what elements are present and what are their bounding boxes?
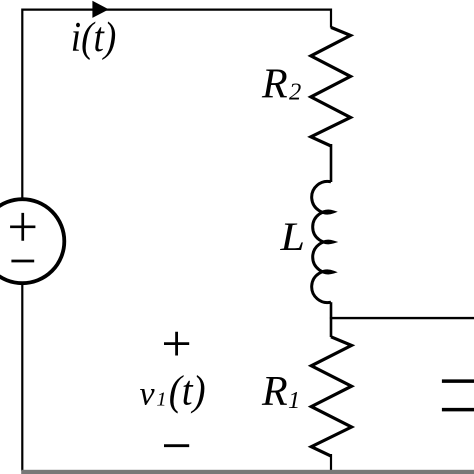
- resistor R1: [311, 337, 351, 456]
- wire: source bottom to bottom wire: [21, 284, 23, 472]
- capacitor plates (cut off at right edge): [442, 381, 474, 410]
- svg-text:i(t): i(t): [71, 14, 117, 61]
- svg-text:1: 1: [288, 387, 300, 414]
- svg-text:(t): (t): [169, 368, 206, 415]
- svg-text:1: 1: [156, 388, 166, 410]
- label minus for v1: [164, 444, 189, 447]
- svg-text:R: R: [261, 62, 288, 108]
- svg-text:R: R: [261, 369, 288, 415]
- wire: R2 to L: [330, 144, 333, 182]
- current arrow on top wire: [92, 1, 108, 18]
- svg-text:v: v: [140, 376, 156, 413]
- voltage source plus sign: [10, 213, 35, 241]
- wire: R1 to bottom: [330, 454, 332, 471]
- voltage source VS circle: [0, 199, 64, 283]
- voltage source minus sign: [11, 260, 34, 263]
- resistor R2: [311, 27, 351, 146]
- wire: bottom horizontal (gray band at crop edge): [21, 470, 474, 474]
- wire: node to right edge: [330, 317, 474, 319]
- wire: L to node to R1: [330, 302, 333, 337]
- label plus for v1: [164, 332, 189, 356]
- svg-text:2: 2: [289, 78, 301, 105]
- inductor L: [312, 181, 334, 302]
- svg-text:L: L: [279, 216, 305, 260]
- wire: left vertical top segment + top horizontal + right branch stub: [22, 10, 331, 199]
